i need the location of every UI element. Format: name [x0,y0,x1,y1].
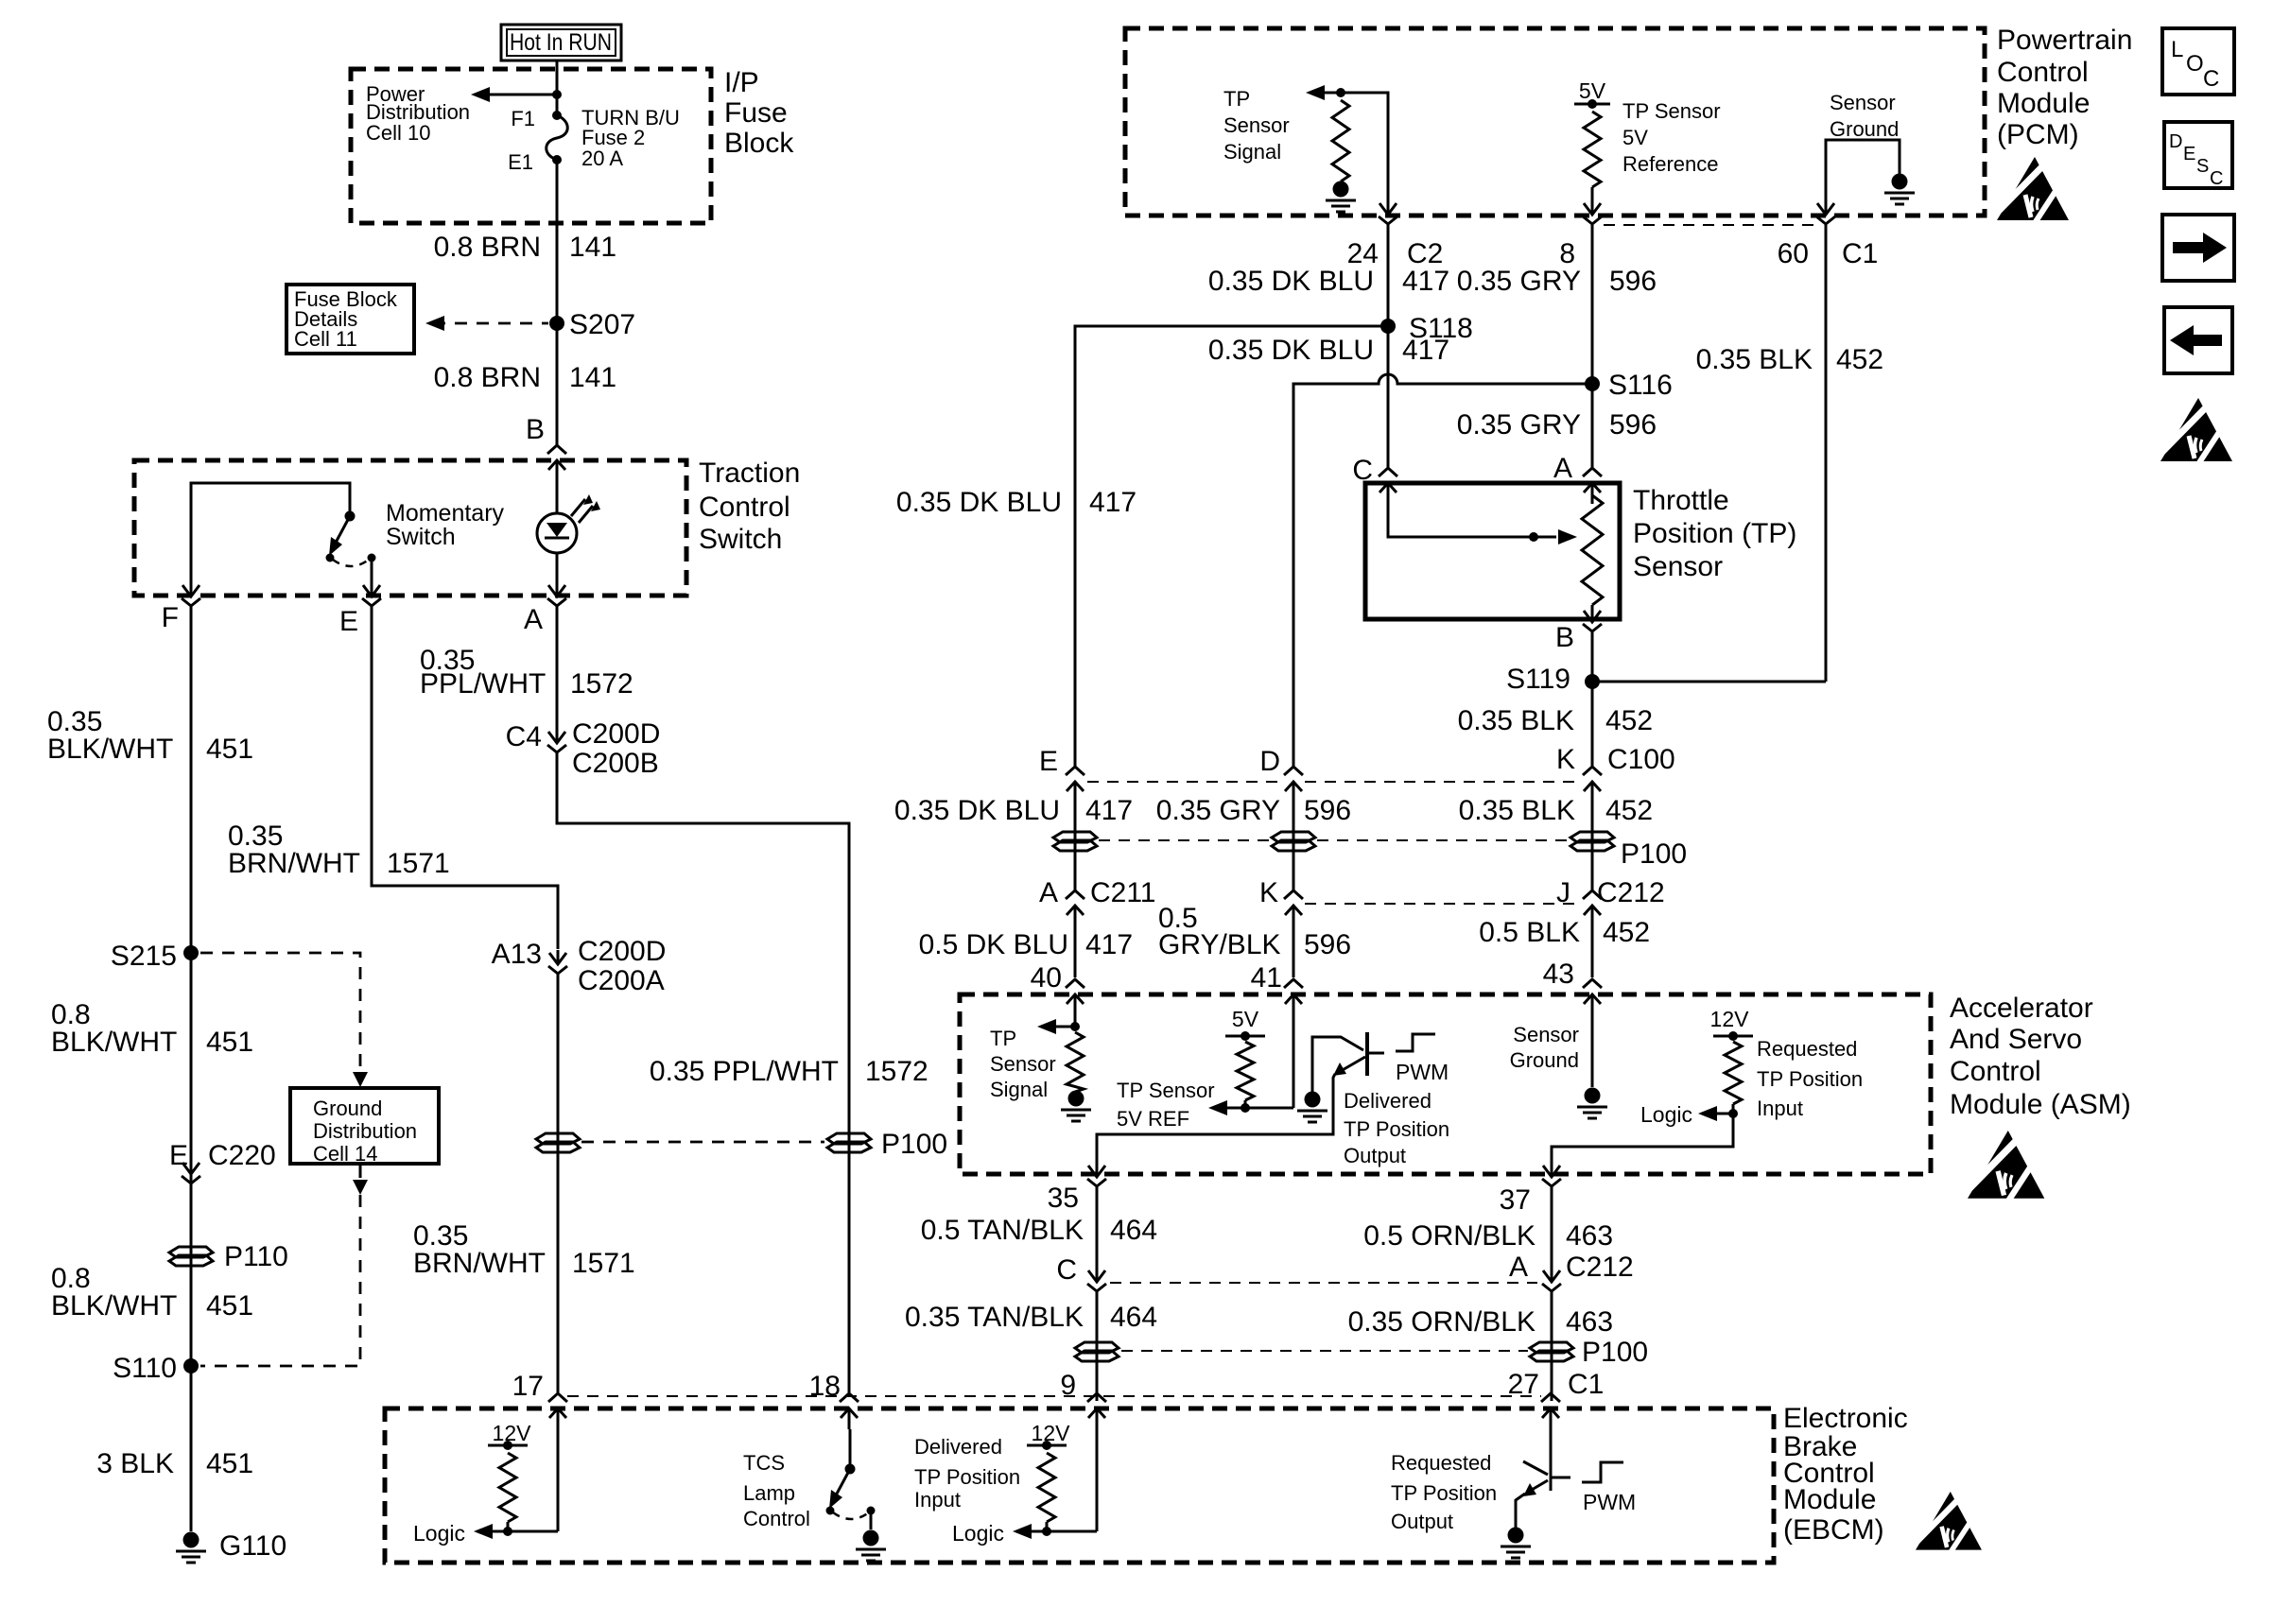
svg-text:463: 463 [1566,1220,1613,1252]
EBCM pin 17 connector [548,1393,567,1429]
ASM sensor ground symbol [1585,1088,1601,1104]
TP Sensor 5V REF arrow wire [1208,1015,1293,1115]
svg-text:452: 452 [1605,795,1653,826]
wire BLK pin 60 down to S119 [1825,236,1828,682]
label 0.35 GRY 596 below S116 [1457,409,1657,441]
dashed link S215 to ground distribution [200,953,368,1087]
ESD symbol EBCM [1916,1492,1982,1552]
svg-text:Cell 11: Cell 11 [294,327,357,351]
LOC icon box [2162,28,2234,95]
ASM delivered transistor [1312,1032,1384,1092]
svg-text:F: F [162,602,179,633]
svg-text:TP Position: TP Position [1344,1117,1449,1141]
labels 0.35 DK BLU 417 / 0.35 GRY 596 / 0.35 BLK 452 [894,795,1653,826]
svg-text:I/P: I/P [724,67,759,98]
EBCM requested transistor ground [1508,1528,1524,1544]
svg-text:Control: Control [743,1507,810,1530]
svg-text:Input: Input [914,1488,961,1512]
svg-text:D: D [2169,131,2182,152]
svg-text:BLK/WHT: BLK/WHT [51,1027,177,1058]
svg-text:Momentary: Momentary [386,500,505,527]
P100 dashed line [1099,839,1568,841]
svg-text:Logic: Logic [952,1521,1004,1546]
label 0.8 BRN 141 upper [434,232,616,263]
svg-text:BRN/WHT: BRN/WHT [413,1248,546,1279]
svg-text:41: 41 [1251,962,1282,993]
PCM pin 60 C1 connector [1778,200,1879,269]
wire feed inside switch [191,483,350,582]
svg-text:Delivered: Delivered [1344,1089,1431,1113]
fuse F1 terminal [511,107,562,130]
svg-text:0.35 PPL/WHT: 0.35 PPL/WHT [650,1056,839,1087]
svg-text:0.35 GRY: 0.35 GRY [1156,795,1280,826]
label 0.35 BLK 452 below S119 [1458,705,1654,736]
svg-text:Ground: Ground [1830,117,1899,141]
svg-text:37: 37 [1500,1184,1531,1216]
momentary switch right contact [368,554,376,562]
Power Distribution Cell 10 label [366,82,470,145]
svg-text:C200A: C200A [578,965,665,996]
svg-text:Sensor: Sensor [1633,551,1723,582]
grommet P110 [169,1241,288,1272]
svg-text:1571: 1571 [572,1248,635,1279]
ESD symbol ASM [1968,1131,2044,1201]
svg-text:417: 417 [1085,929,1133,960]
svg-text:40: 40 [1031,962,1062,993]
C211 dashed line [1305,903,1577,905]
svg-text:0.5 ORN/BLK: 0.5 ORN/BLK [1363,1220,1536,1252]
svg-text:452: 452 [1603,917,1650,948]
Delivered TP Position Input label EBCM [914,1435,1020,1512]
label 0.35 PPL/WHT 1572 [420,645,633,700]
svg-text:1571: 1571 [387,848,450,879]
ESD symbol PCM [1997,157,2069,223]
fuse value label [581,106,680,170]
wires into ASM pins [1075,926,1592,977]
svg-text:Requested: Requested [1391,1451,1491,1475]
ASM signal resistor [1067,1032,1084,1092]
wire PPL/WHT pin A to C4 [556,618,559,729]
PCM signal pull-up resistor [1332,100,1349,181]
svg-text:GRY/BLK: GRY/BLK [1158,929,1281,960]
svg-text:Ground: Ground [313,1097,382,1120]
connector C220 pin E [169,1140,276,1196]
wires into P100 row [1075,803,1592,890]
svg-text:C: C [1056,1254,1077,1286]
svg-text:A: A [1509,1252,1528,1283]
wire to Power Distribution with arrow [471,87,557,102]
svg-text:P100: P100 [881,1129,947,1160]
Throttle Position Sensor box [1365,483,1620,619]
wire BRN/WHT A13 to pin 17 [557,986,560,1392]
svg-text:Throttle: Throttle [1633,485,1729,516]
svg-text:43: 43 [1543,959,1574,990]
svg-text:C4: C4 [506,721,542,752]
grommet P100 pair on 1571/1572 [536,1129,947,1160]
svg-text:0.5 TAN/BLK: 0.5 TAN/BLK [921,1215,1084,1246]
svg-text:1572: 1572 [570,668,633,700]
ASM logic arrow [1640,1102,1738,1127]
label 0.35 DK BLU 417 left column [896,487,1136,518]
connector A13 C200D/C200A [492,936,667,996]
svg-text:S116: S116 [1608,370,1673,401]
TCS Lamp Control label [743,1451,810,1530]
wire ORN/BLK 37 to C212 [1551,1199,1553,1268]
Sensor Ground label PCM [1830,91,1899,141]
svg-text:Cell 14: Cell 14 [313,1142,377,1166]
svg-text:417: 417 [1085,795,1133,826]
connector C212 pin A [1509,1252,1634,1304]
svg-text:A: A [524,604,543,635]
label 0.35 GRY 596 top [1457,266,1657,297]
dashed link ground distribution to S110 [200,1164,368,1366]
momentary switch left contact [326,554,335,562]
branch wire S116 to D column with hop [1293,374,1592,767]
TP sensor signal arrow and wire [1306,85,1388,200]
svg-text:E: E [1039,746,1058,777]
PCM 5V reference resistor [1584,112,1601,187]
svg-text:E: E [169,1140,188,1171]
svg-text:S110: S110 [113,1353,177,1384]
wire GRY pin 8 to S116 [1591,236,1594,384]
svg-text:0.5 BLK: 0.5 BLK [1479,917,1580,948]
PWM symbol EBCM [1582,1462,1636,1514]
label 0.35 BRN/WHT 1571 lower [413,1220,635,1279]
ground G110 [176,1530,286,1563]
svg-text:0.35 BLK: 0.35 BLK [1458,705,1574,736]
svg-text:0.8 BRN: 0.8 BRN [434,232,541,263]
svg-text:A: A [1039,877,1058,908]
connector pin B into traction switch [547,445,566,481]
EBCM C1 connector dashed line [567,1395,1541,1397]
label 0.35 DK BLU 417 top [1208,266,1449,297]
svg-text:0.35 ORN/BLK: 0.35 ORN/BLK [1348,1306,1536,1338]
svg-text:Requested: Requested [1757,1037,1857,1061]
svg-text:C: C [2210,168,2223,189]
svg-text:596: 596 [1609,409,1657,441]
TP Sensor 5V REF label [1117,1079,1215,1131]
EBCM pin 18 connector [840,1393,859,1429]
svg-text:A: A [1553,453,1572,484]
svg-text:C211: C211 [1090,877,1156,908]
svg-text:Switch: Switch [386,524,456,550]
svg-text:141: 141 [569,362,616,393]
splice S116 [1585,370,1673,401]
splice S119 [1506,664,1600,695]
svg-text:417: 417 [1402,335,1449,366]
ASM requested resistor [1725,1042,1742,1104]
svg-text:TP Position: TP Position [1391,1481,1497,1505]
svg-text:TCS: TCS [743,1451,785,1475]
momentary switch label [386,500,505,550]
svg-text:Output: Output [1344,1144,1406,1167]
Ground Distribution Cell 14 box [290,1088,439,1166]
momentary switch pivot [345,511,356,522]
svg-text:Distribution: Distribution [313,1119,417,1143]
PCM pin 24 C2 connector [1347,200,1444,269]
svg-text:PPL/WHT: PPL/WHT [420,668,546,700]
svg-text:464: 464 [1110,1215,1157,1246]
grommets P100 row [1053,832,1687,870]
Hot In RUN box [501,25,621,60]
label 0.35 TAN/BLK 464 [905,1302,1157,1333]
svg-text:C200D: C200D [578,936,666,967]
5V supply PCM [1574,78,1610,109]
Traction Control Switch dashed box [134,460,686,596]
svg-text:5V: 5V [1232,1007,1259,1031]
LED indicator arrow from B [556,477,559,513]
wire BRN/WHT pin E to A13 [372,618,558,949]
svg-text:0.35 GRY: 0.35 GRY [1457,266,1581,297]
Requested TP Position Output label EBCM [1391,1451,1497,1533]
svg-text:1572: 1572 [865,1056,928,1087]
svg-text:596: 596 [1304,929,1351,960]
svg-text:E: E [2183,144,2195,164]
left arrow icon box [2164,307,2232,373]
svg-text:463: 463 [1566,1306,1613,1338]
junction node to power distribution [552,90,562,99]
svg-text:Control: Control [699,492,790,523]
TP Sensor Signal label ASM [990,1027,1056,1101]
sensor ground wire PCM [1826,140,1900,200]
C212 dashed line lower [1110,1282,1537,1284]
svg-text:TP Position: TP Position [914,1465,1020,1489]
EBCM requested transistor [1516,1429,1570,1528]
wire BRN 141 S207 to switch [556,323,559,445]
ASM delivered transistor ground [1305,1092,1321,1108]
svg-text:452: 452 [1605,705,1653,736]
I/P Fuse Block dashed box [351,69,711,223]
svg-text:0.35 GRY: 0.35 GRY [1457,409,1581,441]
pin numbers 40 41 43 [1031,959,1574,993]
svg-text:Signal: Signal [1223,140,1281,164]
svg-text:F1: F1 [511,107,535,130]
PCM pin 8 connector [1559,200,1602,269]
svg-text:596: 596 [1304,795,1351,826]
svg-text:Sensor: Sensor [990,1052,1056,1076]
svg-text:Control: Control [1997,57,2089,88]
svg-text:TP: TP [1223,87,1250,111]
splice S118 [1380,313,1473,344]
pin letters F E A [162,602,543,637]
label 0.35 BRN/WHT 1571 upper [228,821,450,879]
ASM signal junction arrow [1037,1013,1080,1034]
TP sensor pin B connector [1555,608,1602,653]
svg-text:C: C [2203,66,2219,92]
12V supply EBCM right [1027,1421,1070,1450]
label 0.8 BLK/WHT 451 second [51,1263,253,1322]
Requested TP Position Input label [1757,1037,1863,1120]
wire from Hot In RUN to fuse F1 [556,60,559,115]
svg-text:PWM: PWM [1396,1060,1449,1084]
momentary switch lever [329,516,350,556]
label 0.5 TAN/BLK 464 [921,1215,1157,1246]
label 3 BLK 451 [96,1448,253,1479]
momentary switch dashed travel arc [333,560,369,566]
svg-text:BRN/WHT: BRN/WHT [228,848,360,879]
svg-text:417: 417 [1089,487,1136,518]
svg-text:TP Sensor: TP Sensor [1117,1079,1215,1102]
label 0.35 BLK/WHT 451 [47,706,253,765]
pin labels 9 27 C1 [1060,1369,1604,1401]
dashed arrow S207 to fuse block details [425,316,548,331]
wire ORN/BLK C212 to P100 [1551,1304,1553,1401]
svg-text:451: 451 [206,1448,253,1479]
svg-text:TP Position: TP Position [1757,1067,1863,1091]
label 0.35 BLK 452 pin60 [1696,344,1884,375]
ASM delivered output wire [1097,1074,1335,1163]
svg-text:18: 18 [809,1371,841,1402]
Sensor Ground label ASM [1510,1023,1579,1072]
svg-text:Fuse: Fuse [724,97,788,129]
svg-text:Cell 10: Cell 10 [366,121,430,145]
PCM title [1997,25,2132,150]
svg-text:(EBCM): (EBCM) [1783,1514,1884,1546]
TP sensor title [1633,485,1796,582]
svg-text:Logic: Logic [1640,1102,1692,1127]
EBCM pin 9 connector [1087,1393,1106,1429]
5V supply ASM [1225,1007,1265,1041]
svg-text:S: S [2196,156,2209,177]
TP Sensor 5V Reference label [1622,99,1721,176]
12V supply EBCM left [488,1421,531,1450]
svg-text:Control: Control [1950,1056,2041,1087]
svg-text:0.5 DK BLU: 0.5 DK BLU [919,929,1068,960]
branch wire S118 to left column [1075,326,1388,767]
svg-text:141: 141 [569,232,616,263]
ASM title [1950,993,2131,1120]
ASM pin 37 connector [1500,1163,1561,1216]
ASM sensor ground wire [1591,1011,1594,1087]
svg-text:Input: Input [1757,1097,1803,1120]
splice S110 [113,1353,199,1384]
svg-text:B: B [1555,622,1574,653]
svg-text:Module (ASM): Module (ASM) [1950,1089,2131,1120]
svg-text:0.35 BLK: 0.35 BLK [1696,344,1813,375]
Electronic Brake Control Module dashed box [385,1408,1774,1563]
svg-text:K: K [1259,877,1278,908]
label 0.8 BLK/WHT 451 [51,999,253,1058]
svg-text:451: 451 [206,1290,253,1322]
connector C100 pins E D K [1039,744,1675,803]
svg-text:O: O [2186,51,2204,77]
svg-text:Switch: Switch [699,524,782,555]
svg-text:C1: C1 [1568,1369,1604,1400]
ASM 5V ref junction [1241,1100,1250,1113]
EBCM TCS lamp resistor [499,1453,516,1522]
svg-text:P110: P110 [224,1241,288,1272]
label 0.35 ORN/BLK 463 [1348,1306,1614,1338]
svg-text:Hot In RUN: Hot In RUN [510,29,612,56]
connector C212 pin C [1056,1254,1106,1304]
svg-text:12V: 12V [1032,1421,1071,1445]
TP sensor wiper arm [1388,492,1577,544]
wire BLK/WHT 451 pin F down to G110 [190,616,193,1531]
svg-text:17: 17 [512,1371,544,1402]
svg-text:Module: Module [1783,1484,1876,1515]
ASM pin 43 connector [1583,979,1602,1015]
svg-text:C212: C212 [1597,877,1665,908]
svg-text:0.35 TAN/BLK: 0.35 TAN/BLK [905,1302,1084,1333]
svg-text:L: L [2171,37,2183,62]
EBCM logic arrow left [413,1429,558,1546]
ASM signal resistor ground [1068,1091,1084,1107]
svg-text:E1: E1 [508,150,533,174]
ESD symbol standalone [2160,398,2232,464]
EBCM title [1783,1403,1908,1546]
svg-text:Sensor: Sensor [1830,91,1896,114]
svg-text:Traction: Traction [699,458,800,489]
label 0.5 ORN/BLK 463 [1363,1220,1613,1252]
svg-text:20 A: 20 A [581,147,623,170]
Delivered TP Position Output label ASM [1344,1089,1449,1167]
Powertrain Control Module dashed box [1125,28,1985,216]
svg-text:Reference: Reference [1622,152,1719,176]
svg-text:596: 596 [1609,266,1657,297]
svg-text:Logic: Logic [413,1521,465,1546]
svg-text:0.35 BLK: 0.35 BLK [1459,795,1575,826]
svg-text:Block: Block [724,128,794,159]
svg-text:BLK/WHT: BLK/WHT [51,1290,177,1322]
wire BRN 141 fuse to S207 [556,160,559,323]
PCM signal resistor ground [1333,181,1349,198]
svg-text:S215: S215 [111,941,177,972]
svg-text:451: 451 [206,734,253,765]
EBCM logic arrow right [952,1429,1097,1546]
svg-text:0.35 DK BLU: 0.35 DK BLU [1208,335,1374,366]
TCS lamp switch [826,1429,876,1529]
svg-text:Module: Module [1997,88,2090,119]
svg-text:Signal: Signal [990,1078,1048,1101]
label 0.8 BRN 141 lower [434,362,616,393]
svg-text:C1: C1 [1842,238,1878,269]
connector C4 C200D/C200B [506,718,661,779]
svg-text:C220: C220 [208,1140,276,1171]
svg-text:35: 35 [1048,1183,1079,1214]
svg-text:C200D: C200D [572,718,660,750]
connector pins F E A below switch [182,582,566,618]
svg-text:Ground: Ground [1510,1048,1579,1072]
svg-text:A13: A13 [492,939,542,970]
svg-text:G110: G110 [219,1530,286,1562]
pin labels 17 18 [512,1371,841,1402]
wire GRY S116 to TP sensor A [1591,384,1594,468]
svg-text:5V REF: 5V REF [1117,1107,1189,1131]
LED indicator [537,494,600,553]
svg-text:452: 452 [1836,344,1883,375]
svg-text:P100: P100 [1582,1337,1648,1368]
I/P Fuse Block title [724,67,794,159]
12V supply ASM [1710,1007,1753,1041]
sensor ground symbol PCM [1892,174,1908,190]
LED to pin A wire [556,553,559,583]
wire DK BLU pin 24 to S118 [1387,236,1390,326]
DESC icon box [2164,122,2232,189]
svg-text:5V: 5V [1622,126,1648,149]
wire contact to pin E [371,558,373,583]
Fuse Block Details Cell 11 box [286,285,414,354]
ASM requested output wire [1552,1114,1733,1163]
svg-text:464: 464 [1110,1302,1157,1333]
EBCM delivered resistor [1038,1453,1055,1522]
svg-text:TP: TP [990,1027,1016,1050]
svg-text:Delivered: Delivered [914,1435,1002,1459]
right arrow icon box [2162,215,2234,281]
svg-text:0.8 BRN: 0.8 BRN [434,362,541,393]
svg-text:Output: Output [1391,1510,1453,1533]
connector C211 pins A K / C212 pin J [1039,877,1665,926]
label 0.35 PPL/WHT 1572 lower [650,1056,928,1087]
